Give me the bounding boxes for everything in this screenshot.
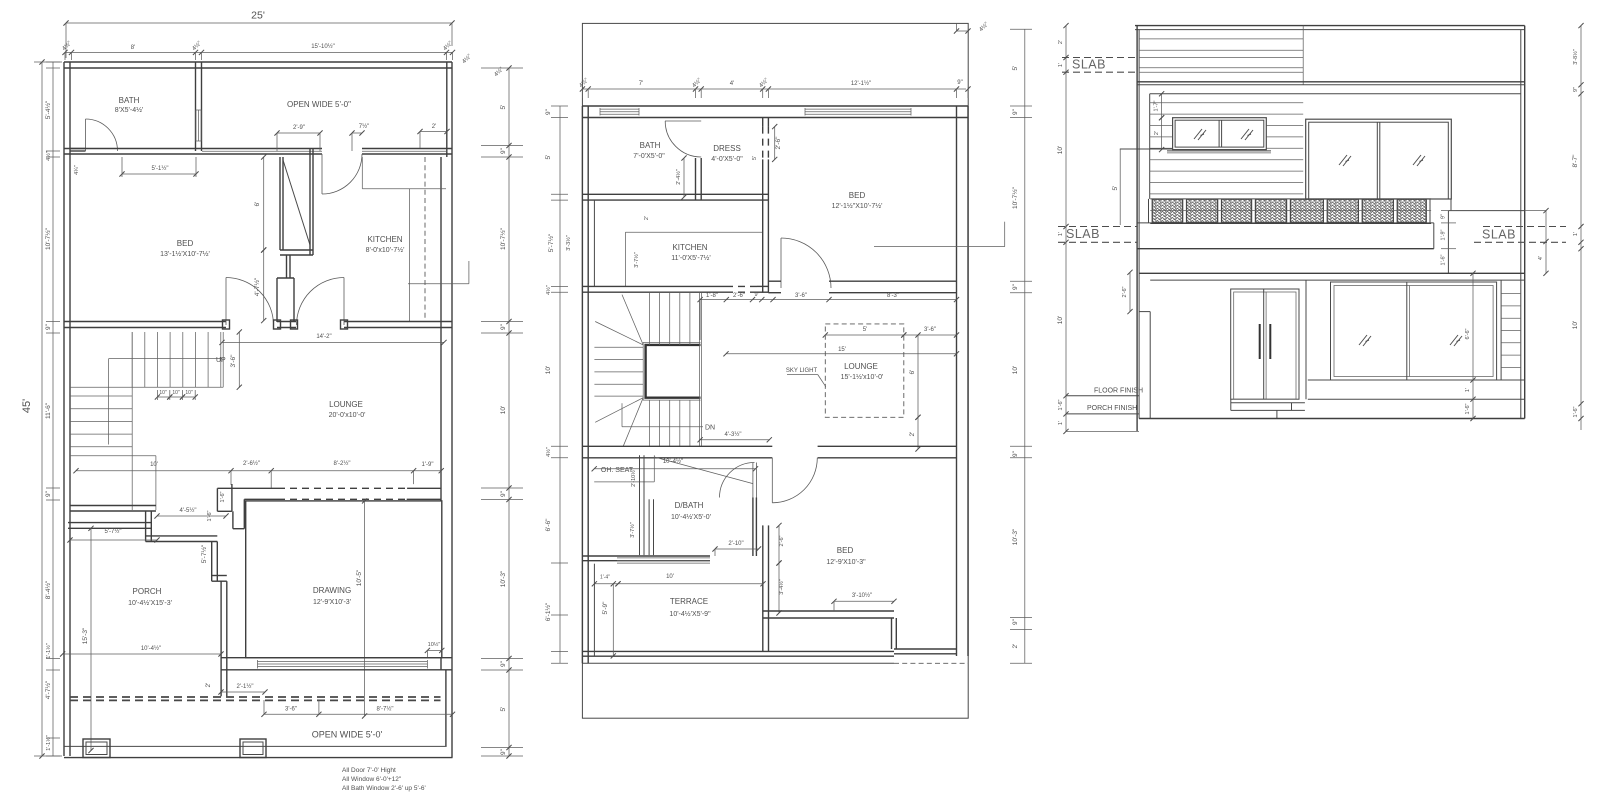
svg-text:5'-1½": 5'-1½": [152, 165, 169, 172]
dim 4-3.5: [700, 439, 769, 441]
porch jog vertical: [145, 511, 147, 542]
terrace dim 10ft: [618, 583, 763, 585]
porch dim 5-7.5: [70, 539, 157, 541]
dim row 10 / 2-6.5 / 8-2.5 / 1-9: [76, 470, 441, 472]
svg-text:4'-0'X5'-0": 4'-0'X5'-0": [711, 156, 743, 163]
svg-text:9": 9": [500, 660, 507, 667]
parapet divider: [1302, 26, 1304, 85]
svg-text:LOUNGE: LOUNGE: [329, 400, 363, 409]
kitchen counter dashed center line: [424, 157, 426, 322]
ground floor left notch: [1149, 312, 1151, 419]
drawing room interior dim 10-5 vertical: [364, 501, 366, 716]
first floor dim row below bed: [700, 299, 956, 301]
bed1 bottom wall: [829, 280, 957, 282]
first floor top wall: [582, 105, 968, 107]
svg-text:4½": 4½": [578, 77, 590, 89]
terrace dim 5-9: [612, 584, 614, 656]
svg-text:2': 2': [644, 216, 650, 220]
svg-text:1'-8": 1'-8": [706, 293, 718, 299]
svg-text:15'-1½'x10'-0': 15'-1½'x10'-0': [841, 373, 884, 381]
porch dim 10-4.5 diagonal-ish: [63, 653, 221, 655]
svg-text:1': 1': [1058, 421, 1064, 425]
ground floor big window pair: [1331, 282, 1497, 380]
svg-text:2': 2': [205, 683, 212, 688]
svg-text:5': 5': [1012, 66, 1019, 71]
terrace inner left line: [593, 564, 595, 656]
svg-text:10": 10": [172, 390, 180, 396]
svg-text:SKY LIGHT: SKY LIGHT: [786, 368, 818, 374]
svg-text:2': 2': [1154, 131, 1160, 135]
svg-text:10': 10': [1057, 146, 1064, 154]
dim 5-1.5 below bath: [122, 173, 196, 175]
wall bath/dress: [695, 158, 697, 200]
svg-text:2'-4½": 2'-4½": [675, 169, 682, 185]
wall kitchen/bed: [762, 200, 764, 293]
svg-text:1'-1½": 1'-1½": [45, 643, 52, 659]
parapet siding stripes left: [1139, 38, 1303, 40]
svg-text:4'-5½": 4'-5½": [180, 507, 197, 514]
svg-text:TERRACE: TERRACE: [670, 597, 708, 606]
svg-text:5'-4½": 5'-4½": [44, 100, 52, 119]
svg-text:1'-6": 1'-6": [1058, 399, 1064, 410]
svg-text:SLAB: SLAB: [1066, 227, 1100, 241]
center wall stub between doors: [276, 278, 278, 322]
svg-text:9": 9": [1012, 283, 1019, 290]
svg-text:4½": 4½": [461, 53, 473, 65]
terrace dim 1-4 small: [594, 583, 618, 585]
flue duct between bed and kitchen: [279, 157, 281, 250]
first floor stairwell square opening: [646, 345, 701, 398]
drawing room bottom wall with window: [221, 657, 452, 659]
bath/dress bottom wall: [582, 193, 768, 195]
kitchen bottom wall: [582, 285, 726, 287]
bath door opening jambs: [70, 148, 86, 150]
45 ft overall vertical dimension: [41, 62, 43, 756]
door handles: [1259, 324, 1261, 359]
svg-text:11'-0'X5'-7½': 11'-0'X5'-7½': [671, 254, 710, 262]
svg-text:5'-9": 5'-9": [602, 601, 609, 615]
ground line: [1139, 418, 1525, 420]
svg-text:SLAB: SLAB: [1072, 58, 1106, 72]
svg-text:14'-2": 14'-2": [316, 334, 331, 340]
svg-text:8'-7": 8'-7": [1572, 154, 1579, 168]
dim 6 ft flue height: [263, 157, 265, 250]
first floor stair right opening edge: [698, 292, 700, 446]
kitchen door at lounge wall: [343, 278, 345, 326]
svg-text:SLAB: SLAB: [1482, 228, 1516, 242]
svg-text:10'-4½'X15'-3': 10'-4½'X15'-3': [128, 599, 172, 607]
d/bath right wall: [752, 498, 754, 557]
svg-text:FLOOR FINISH: FLOOR FINISH: [1094, 388, 1143, 395]
svg-text:2'-1½": 2'-1½": [237, 683, 254, 690]
svg-text:8'-3": 8'-3": [887, 293, 899, 299]
elevation double door: [1231, 289, 1299, 399]
first floor top dimension row: [582, 88, 966, 90]
ground floor beam lines: [1139, 272, 1525, 274]
small top dims 2-9 / 7.5 / 2: [277, 132, 320, 134]
porch right wall upper: [211, 542, 213, 582]
wall dress/bed solid parts: [762, 118, 764, 127]
first floor right wall: [956, 106, 958, 656]
porch wall C step: [212, 575, 227, 577]
svg-text:9": 9": [500, 748, 507, 755]
svg-text:4': 4': [730, 81, 734, 87]
svg-text:8': 8': [131, 45, 135, 51]
ground floor staircase upper flight treads: [131, 332, 133, 387]
d/bath door: [752, 463, 754, 498]
svg-text:10'-4½": 10'-4½": [663, 458, 683, 465]
svg-text:8'-0'x10'-7½': 8'-0'x10'-7½': [366, 246, 405, 254]
svg-text:4': 4': [1538, 256, 1544, 260]
svg-text:9": 9": [1573, 87, 1579, 92]
dim 10.5 inch drawing right: [427, 649, 441, 651]
first floor building bottom line: [582, 662, 894, 664]
svg-text:UP: UP: [216, 357, 226, 364]
svg-text:7'-0'X5'-0": 7'-0'X5'-0": [633, 153, 665, 160]
bath door to dress: [665, 120, 701, 122]
kitchen counter: [362, 188, 446, 190]
bed2 left wall: [762, 525, 764, 613]
svg-text:3'-10½": 3'-10½": [852, 592, 872, 599]
svg-text:KITCHEN: KITCHEN: [672, 243, 707, 252]
stair lower landing: [70, 455, 156, 457]
svg-text:4¼": 4¼": [74, 165, 80, 175]
stair DN leader and label: [621, 403, 623, 427]
dim 1-7 and 2 upper left: [1161, 94, 1163, 118]
ground stairs left flight treads: [70, 395, 132, 397]
svg-text:All Bath Window 2'-6' up 5'-6': All Bath Window 2'-6' up 5'-6': [342, 785, 426, 792]
left exterior dimension column: [52, 62, 54, 756]
svg-text:1'-9": 1'-9": [1441, 229, 1447, 240]
svg-text:11'-6": 11'-6": [45, 402, 52, 419]
svg-text:1'-1½": 1'-1½": [45, 735, 52, 751]
upper floor inner face: [1150, 93, 1521, 95]
svg-text:8'-2½": 8'-2½": [334, 460, 351, 467]
right stair block box: [1448, 210, 1524, 212]
dim 2-6 left notch: [1129, 272, 1131, 311]
svg-text:2'-10": 2'-10": [728, 541, 743, 547]
svg-text:10'-7½": 10'-7½": [44, 227, 52, 250]
svg-text:4½": 4½": [493, 66, 505, 78]
right mid dim vertical: [1525, 210, 1546, 212]
svg-text:2': 2': [909, 432, 916, 437]
svg-text:9": 9": [1441, 214, 1447, 219]
svg-text:3'-6": 3'-6": [924, 327, 936, 333]
svg-text:9": 9": [1012, 450, 1019, 457]
svg-text:13'-1½'X10'-7½': 13'-1½'X10'-7½': [160, 250, 210, 258]
elevation parapet coping: [1135, 25, 1525, 27]
kitchen left partition: [593, 200, 595, 286]
svg-text:5': 5': [545, 155, 552, 160]
bath window first floor: [600, 108, 639, 110]
svg-text:BATH: BATH: [119, 96, 140, 105]
svg-text:2'-6½": 2'-6½": [243, 460, 260, 467]
svg-text:3'-3½": 3'-3½": [565, 235, 572, 251]
svg-text:10'-7½": 10'-7½": [499, 227, 507, 250]
svg-text:6': 6': [254, 202, 261, 207]
svg-text:4½": 4½": [758, 77, 770, 89]
glazing mark ground window 1: [1359, 335, 1371, 346]
svg-text:10'-5": 10'-5": [356, 569, 363, 586]
svg-text:9": 9": [500, 323, 507, 330]
svg-text:10½": 10½": [428, 641, 441, 648]
svg-text:10': 10': [500, 406, 507, 414]
svg-text:3'-4½": 3'-4½": [778, 579, 785, 595]
glazing mark upper big window 1: [1339, 155, 1351, 166]
right louver ladder: [1500, 280, 1502, 380]
svg-text:10'-3": 10'-3": [1012, 528, 1019, 545]
window sill lines: [1308, 379, 1525, 381]
upper small window pair: [1173, 118, 1267, 150]
terrace bottom wall: [582, 650, 894, 652]
svg-text:5'-7½": 5'-7½": [200, 544, 208, 563]
svg-text:1'-6": 1'-6": [1573, 406, 1579, 417]
porch open edge dashed: [70, 696, 441, 698]
svg-text:5'-7½": 5'-7½": [105, 528, 122, 535]
bed2 left dims 2-6 and 3-4.5: [778, 525, 780, 563]
glazing mark ground window 2: [1450, 335, 1462, 346]
dim 4-7.5: [263, 250, 265, 321]
svg-text:3'-6": 3'-6": [230, 354, 237, 368]
svg-text:45': 45': [21, 399, 33, 413]
porch vertical dim 15-3: [90, 528, 92, 750]
porch wall B: [146, 535, 218, 537]
svg-text:8'-7½": 8'-7½": [377, 706, 394, 713]
outer wall bottom: [64, 745, 447, 747]
svg-text:KITCHEN: KITCHEN: [367, 235, 402, 244]
SKY LIGHT dashed opening: [825, 324, 904, 417]
left closet partition lines: [639, 455, 641, 555]
svg-text:8'-4½": 8'-4½": [44, 580, 52, 599]
first floor stair upper treads: [649, 292, 651, 345]
right exterior dimension column of ground plan: [508, 68, 510, 756]
glazing mark upper big window 2: [1413, 155, 1425, 166]
first floor right dim column: [1024, 29, 1026, 663]
door threshold steps: [1231, 402, 1305, 404]
svg-text:BED: BED: [849, 191, 866, 200]
svg-text:6': 6': [909, 370, 916, 375]
terrace right wall: [762, 613, 764, 651]
svg-text:9": 9": [1012, 108, 1019, 115]
svg-text:10'-3": 10'-3": [500, 570, 507, 587]
svg-text:20'-0'x10'-0': 20'-0'x10'-0': [329, 412, 366, 419]
svg-text:1': 1': [1058, 63, 1064, 67]
lounge bottom wall (partly hidden dashed): [217, 487, 278, 489]
bottom center column: [240, 739, 266, 758]
dim 3-10.5: [834, 600, 894, 602]
glazing mark upper small window 2: [1241, 129, 1253, 140]
bed window first floor: [805, 108, 911, 110]
bottom dim row 3-6 / 8-7.5: [264, 713, 453, 715]
svg-text:1'-6": 1'-6": [1465, 403, 1471, 414]
dim 15 ft lounge line: [726, 353, 957, 355]
svg-text:3'-6": 3'-6": [795, 293, 807, 299]
svg-text:1'-6": 1'-6": [1441, 254, 1447, 265]
svg-text:5': 5': [500, 105, 507, 110]
svg-text:1': 1': [1573, 232, 1579, 236]
svg-text:1': 1': [1465, 388, 1471, 392]
svg-text:DRAWING: DRAWING: [313, 586, 351, 595]
elevation left outer wall: [1136, 26, 1138, 432]
svg-text:3'-7½": 3'-7½": [633, 252, 640, 268]
first floor stair left winder treads: [594, 346, 643, 348]
door jamb blocks: [223, 320, 230, 329]
lounge top wall: [64, 321, 226, 323]
svg-text:4½": 4½": [545, 285, 552, 295]
svg-text:4'-3½": 4'-3½": [725, 431, 742, 438]
svg-text:10'-4½": 10'-4½": [141, 645, 161, 652]
outer wall left: [63, 62, 65, 756]
svg-text:9": 9": [500, 147, 507, 154]
jog to drawing room wall: [243, 499, 245, 528]
drawing room boundary: [246, 501, 442, 658]
stair UP arrow: [109, 358, 222, 360]
stair tread dims 10 inch: [157, 396, 169, 398]
svg-text:15': 15': [838, 347, 846, 353]
bath door: [85, 119, 87, 151]
bottom left porch column: [83, 739, 110, 758]
svg-text:6'-6": 6'-6": [545, 518, 552, 532]
svg-text:10'-4½'X5'-0': 10'-4½'X5'-0': [671, 513, 711, 521]
svg-text:15'-10½": 15'-10½": [311, 43, 335, 50]
svg-text:BATH: BATH: [640, 141, 661, 150]
svg-text:5'-7½": 5'-7½": [547, 233, 555, 252]
svg-text:4½": 4½": [191, 40, 203, 52]
railing rails: [1150, 198, 1431, 200]
ground floor plan - overall dimension 25 ft: [66, 22, 452, 24]
svg-text:2': 2': [432, 124, 436, 130]
svg-text:3'-7½": 3'-7½": [629, 522, 636, 538]
svg-text:2'-9": 2'-9": [293, 125, 305, 131]
svg-text:12'-1½": 12'-1½": [851, 80, 871, 87]
svg-text:15'-3": 15'-3": [82, 627, 89, 644]
svg-text:LOUNGE: LOUNGE: [844, 362, 878, 371]
notch box at lounge/porch junction: [216, 488, 218, 511]
svg-text:BED: BED: [837, 546, 854, 555]
stair winder diagonals upper corner: [622, 295, 643, 345]
svg-text:4'-7½": 4'-7½": [44, 680, 52, 699]
svg-text:1'-4": 1'-4": [600, 575, 610, 581]
svg-text:9": 9": [45, 490, 52, 497]
svg-text:All Door 7'-0' Hight: All Door 7'-0' Hight: [342, 767, 396, 774]
wall segment right of lounge wall to drawing corner: [440, 499, 442, 501]
svg-text:5': 5': [752, 156, 758, 160]
svg-text:4½": 4½": [545, 447, 552, 457]
glazing mark upper small window 1: [1194, 129, 1206, 140]
skylight dims 5 / 3-6 / 6 / 2: [825, 334, 904, 336]
svg-text:2': 2': [1058, 40, 1064, 44]
svg-text:10'-7½": 10'-7½": [1011, 186, 1019, 209]
porch wall A: [68, 522, 152, 524]
svg-text:DRESS: DRESS: [713, 144, 741, 153]
svg-text:OPEN WIDE 5'-0': OPEN WIDE 5'-0': [312, 730, 383, 740]
svg-text:5': 5': [863, 327, 867, 333]
svg-text:9": 9": [957, 80, 962, 86]
elevation right outer wall: [1524, 26, 1526, 419]
railing posts: [1148, 199, 1150, 223]
svg-text:10': 10': [545, 366, 552, 374]
first floor stair lower treads: [649, 400, 651, 446]
balcony railing hatched band: [1153, 200, 1183, 223]
svg-text:3'-8½": 3'-8½": [1572, 49, 1579, 65]
5 ft leader: [1120, 148, 1173, 150]
svg-text:3'-6": 3'-6": [285, 707, 297, 713]
svg-text:OPEN WIDE 5'-0": OPEN WIDE 5'-0": [287, 100, 351, 109]
dim 2-6 dress/bed: [774, 127, 776, 160]
svg-text:9": 9": [500, 490, 507, 497]
dim 2-10: [715, 548, 759, 550]
stair winder diagonals lower corner: [595, 398, 643, 423]
svg-text:5': 5': [500, 707, 507, 712]
kitchen reference leader to right: [408, 283, 469, 285]
porch right wall lower: [220, 581, 222, 696]
svg-text:10'-4½'X5'-9": 10'-4½'X5'-9": [669, 610, 711, 618]
svg-text:25': 25': [251, 10, 265, 22]
svg-text:4½": 4½": [978, 21, 990, 33]
svg-text:12'-9'X10'-3': 12'-9'X10'-3': [313, 599, 351, 606]
first floor lounge bottom wall: [582, 445, 772, 447]
roof slab band: [1137, 81, 1525, 83]
upper big window pair: [1306, 119, 1452, 199]
d/bath bottom wall with window: [582, 555, 710, 557]
upper wall siding stripes: [1150, 102, 1304, 104]
svg-text:1'-9": 1'-9": [422, 462, 434, 468]
first floor left dim column: [559, 106, 561, 663]
svg-text:10': 10': [666, 574, 674, 580]
svg-text:10': 10': [1572, 321, 1579, 329]
ground floor top dimension row 4.5/8/4.5/15-10.5/4.5: [65, 51, 453, 53]
first floor outer boundary: [582, 23, 968, 718]
svg-text:9": 9": [1012, 618, 1019, 625]
svg-text:4½": 4½": [45, 151, 52, 161]
bed1 reference leader right: [874, 246, 1005, 248]
svg-text:PORCH FINISH: PORCH FINISH: [1087, 405, 1137, 412]
svg-text:All Window 6'-0'+12": All Window 6'-0'+12": [342, 776, 402, 783]
bath wall window: [195, 110, 197, 141]
svg-text:1'-7": 1'-7": [1154, 100, 1160, 111]
svg-text:4½": 4½": [691, 77, 703, 89]
bed2 door: [771, 458, 773, 503]
svg-text:PORCH: PORCH: [133, 587, 162, 596]
svg-text:10': 10': [150, 462, 158, 468]
svg-text:10': 10': [1057, 316, 1064, 324]
svg-text:10": 10": [159, 390, 167, 396]
stair landing bottom wall: [70, 505, 156, 507]
balcony slab: [1137, 222, 1434, 224]
svg-text:2'-10½": 2'-10½": [630, 468, 637, 487]
svg-text:4½": 4½": [61, 40, 73, 52]
svg-text:9": 9": [45, 323, 52, 330]
svg-text:BED: BED: [177, 239, 194, 248]
elevation right inner dim column: [1472, 273, 1474, 418]
svg-text:6'-6": 6'-6": [1465, 328, 1471, 339]
outer wall right: [451, 62, 453, 758]
svg-text:9": 9": [545, 108, 552, 115]
svg-text:9": 9": [754, 292, 759, 298]
right inner dim col 9 / 1-9 / 1-6: [1441, 210, 1456, 212]
bed2 bottom stepped wall: [763, 610, 894, 612]
svg-text:6'-1½": 6'-1½": [544, 602, 552, 621]
door bay divider: [1305, 280, 1307, 399]
door from corridor to kitchen: [321, 154, 323, 194]
svg-text:2'-6": 2'-6": [733, 293, 745, 299]
svg-text:7': 7': [639, 81, 643, 87]
svg-text:2'-6": 2'-6": [775, 136, 782, 150]
svg-text:10": 10": [185, 390, 193, 396]
svg-text:10': 10': [1012, 366, 1019, 374]
svg-text:D/BATH: D/BATH: [675, 501, 704, 510]
dim 2-1.5 bottom: [221, 691, 265, 693]
